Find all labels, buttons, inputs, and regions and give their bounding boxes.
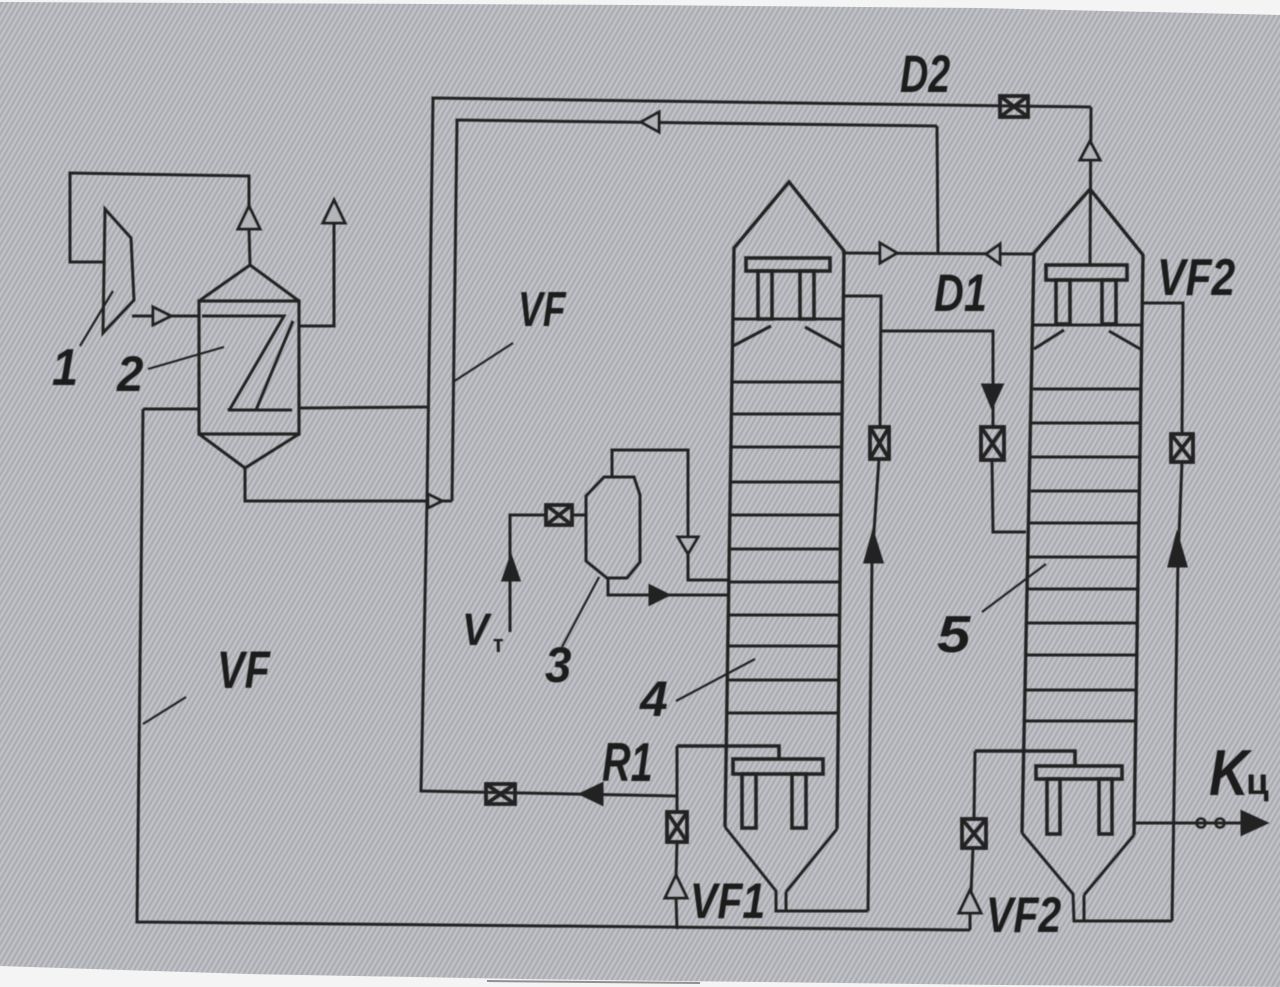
arrow: open up arrow on vessel 2 riser <box>238 206 260 229</box>
svg-text:R1: R1 <box>602 733 653 794</box>
valve on VF2 side draw <box>1171 434 1193 462</box>
column 4 top distributor cap <box>746 258 830 319</box>
column 4 bottom cone and outlet <box>725 827 868 911</box>
label VF left <box>217 641 272 700</box>
arrow: open up arrow VF1 <box>665 875 687 898</box>
svg-text:ц: ц <box>1246 761 1269 802</box>
leader line for label 3 <box>562 577 599 647</box>
column 5 bottom cone and outlet <box>1022 833 1172 921</box>
column 5 shell <box>1022 189 1143 835</box>
arrow: open left arrow on inner loop <box>641 112 659 132</box>
svg-text:4: 4 <box>639 671 668 727</box>
svg-text:5: 5 <box>937 605 971 663</box>
label VF2 top <box>1157 249 1235 307</box>
valve on VF1 line <box>667 812 687 842</box>
label 1 <box>52 339 78 397</box>
column 4 top tray line <box>733 318 843 321</box>
leader line for label 1 <box>80 291 113 346</box>
label Kc <box>1209 736 1269 809</box>
white paper edge top <box>0 0 1280 15</box>
label VF top <box>518 283 567 337</box>
leader line for label 2 <box>148 347 224 369</box>
wire: vessel 2 right side to outer vertical <box>299 407 429 408</box>
node: sample pot circle 2 <box>1216 819 1225 828</box>
svg-text:D2: D2 <box>900 44 950 103</box>
wire: long VF return line down left and along bottom <box>137 409 970 930</box>
label 4 <box>639 671 668 727</box>
svg-text:VF2: VF2 <box>986 887 1061 943</box>
column 4 top deflector slants <box>733 326 843 348</box>
arrow: open up arrow on vent <box>323 200 345 223</box>
label Vt <box>462 605 504 657</box>
wire: vessel 2 vent line with up arrow <box>299 218 334 326</box>
column 4 shell <box>725 182 844 829</box>
column 5 trays <box>1025 389 1141 721</box>
svg-text:3: 3 <box>545 638 571 693</box>
wire: recycle loop from vessel 2 top to fan 1 <box>70 173 249 262</box>
label D2 <box>900 44 950 103</box>
svg-text:V: V <box>462 605 492 655</box>
scan artifact line bottom <box>487 981 700 983</box>
arrow: filled down arrow on D1 branch <box>983 385 1002 407</box>
wire: vapor line between column 4 and column 5 tops <box>842 253 1033 254</box>
valve on VF2 bottoms line <box>962 819 986 848</box>
valve on D2 top line <box>1000 96 1028 117</box>
wire: left VF line horizontal into vessel 2 <box>143 408 199 411</box>
wire: D2 riser from column 5 top <box>1090 107 1091 266</box>
vessel 2 top cone <box>199 265 299 301</box>
vessel 2 bottom cone <box>199 434 299 468</box>
leader line for label 5 <box>982 564 1046 612</box>
wire: vessel 3 top loop to column 4 upper feed <box>612 450 729 580</box>
arrow: open left arrow before column 5 <box>986 244 1000 264</box>
leader line for label 4 <box>676 659 755 701</box>
arrow: filled right arrow on Kc line <box>1242 812 1266 834</box>
svg-text:VF: VF <box>518 283 567 337</box>
label 2 <box>116 347 143 402</box>
svg-text:1: 1 <box>52 339 78 397</box>
svg-text:т: т <box>493 630 504 657</box>
valve on D1 branch <box>981 427 1004 460</box>
column 5 top distributor cap <box>1046 265 1127 324</box>
wire: VF1 bottoms vertical from column 4 <box>676 746 677 929</box>
svg-text:VF: VF <box>217 641 272 700</box>
svg-text:VF2: VF2 <box>1157 249 1235 307</box>
label D1 <box>934 264 987 323</box>
arrow: filled up arrow on column 4 riser <box>865 533 882 562</box>
arrow: filled left arrow on R1 line <box>581 784 602 804</box>
wire: valve to vessel 3 <box>572 514 586 517</box>
wire: Vt feed line with corner into valve <box>510 515 546 632</box>
column 4 trays <box>726 382 842 713</box>
column 5 bottom distributor cap <box>975 751 1122 834</box>
column 5 top tray line <box>1033 324 1142 327</box>
heat exchanger vessel 2 body <box>199 301 299 434</box>
arrow: open right arrow after column 4 <box>880 243 897 263</box>
arrow: filled up arrow on Vt line <box>503 557 519 580</box>
valve on Vt line <box>546 505 572 525</box>
furnace vessel 3 <box>586 477 640 578</box>
arrow: open right arrow on fan outlet <box>153 307 171 325</box>
white paper edge bottom <box>0 966 1280 987</box>
wire: vessel 2 bottoms line to inner vertical <box>245 468 452 501</box>
svg-text:VF1: VF1 <box>690 873 765 929</box>
node: sample pot circle 1 <box>1197 819 1206 828</box>
wire: D1 draw line to column 5 <box>881 331 1026 532</box>
wire: junction vertical between top lines <box>937 126 938 254</box>
wire: vessel 3 bottoms feed line into column 4 <box>608 578 729 595</box>
wire: Kc product line with sample pots <box>1136 822 1243 825</box>
valve on column 4 riser <box>870 427 889 459</box>
arrow: small open right arrow at junction <box>428 494 442 508</box>
arrow: open down arrow on vessel 3 loop <box>678 537 698 554</box>
label 5 <box>937 605 971 663</box>
valve on R1 line <box>486 784 515 804</box>
wire: column 4 riser from bottom to top side <box>844 296 881 911</box>
column 5 top deflector slants <box>1034 330 1142 350</box>
wire: outer loop D2 return line (top, left vertical, R1 bottom) <box>421 98 1091 796</box>
vessel 2 internal Z baffle <box>202 316 293 410</box>
label 3 <box>545 638 571 693</box>
wire: column 5 riser from bottom to VF2 side line <box>1172 462 1182 921</box>
label R1 <box>602 733 653 794</box>
svg-text:2: 2 <box>116 347 143 402</box>
wire: inner loop line from columns to inner left vertical <box>452 120 937 501</box>
leader line for left VF label <box>143 697 186 724</box>
fan 1 <box>103 209 134 333</box>
svg-text:D1: D1 <box>934 264 987 323</box>
arrow: filled right arrow on feed line <box>650 586 668 604</box>
label VF2 bottom <box>986 887 1061 943</box>
wire: vessel 2 top riser <box>249 228 250 265</box>
wire: VF2 bottoms vertical from column 5 <box>970 751 975 930</box>
column 4 bottom distributor cap <box>677 746 823 828</box>
wire: VF2 side draw with valve <box>1143 303 1183 434</box>
leader line for top VF label <box>453 343 513 382</box>
arrow: filled up arrow on column 5 riser <box>1169 535 1186 566</box>
label VF1 <box>690 873 765 929</box>
arrow: open up arrow on D2 riser <box>1080 141 1100 160</box>
arrow: open up arrow VF2 <box>959 890 981 913</box>
wire: fan 1 outlet to vessel 2 inlet <box>132 315 199 318</box>
